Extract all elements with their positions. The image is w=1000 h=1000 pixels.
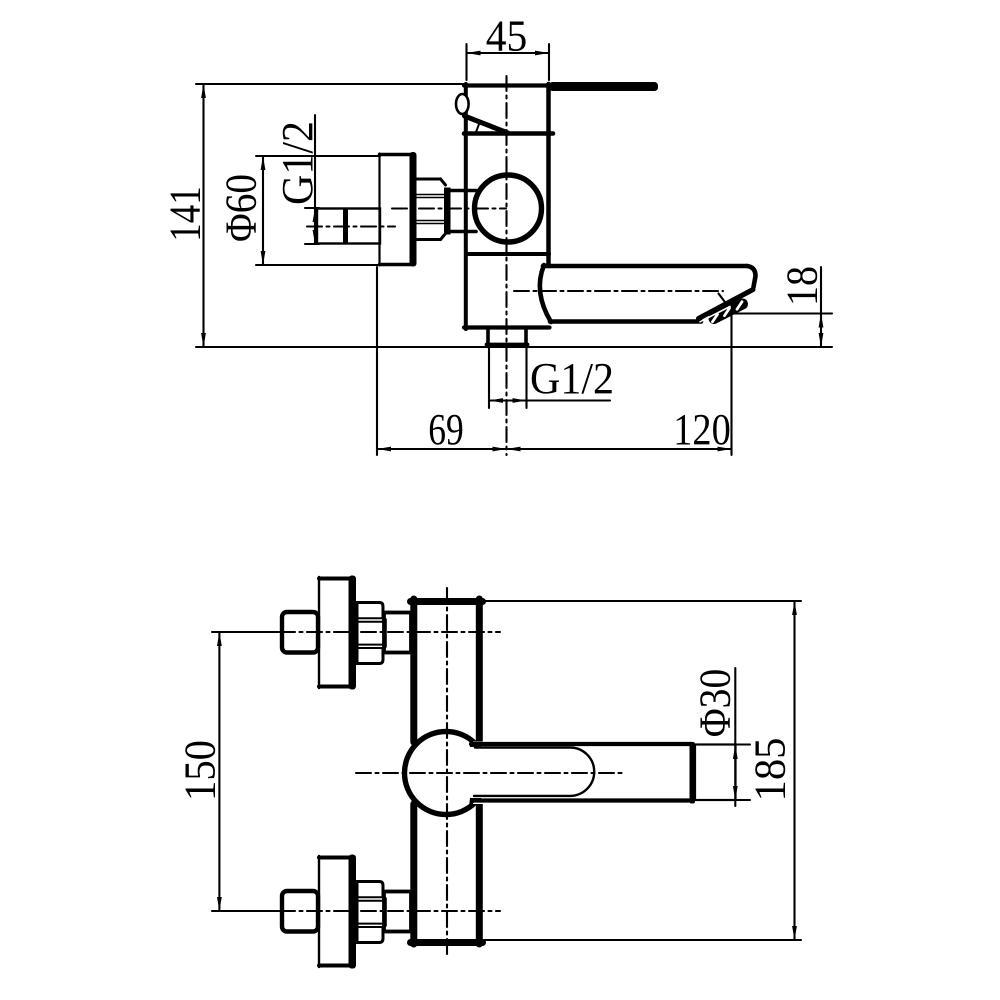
body (front view) bbox=[411, 599, 483, 944]
svg-text:Φ60: Φ60 bbox=[217, 174, 266, 242]
top connector: ribbed nut bbox=[357, 603, 385, 664]
svg-text:45: 45 bbox=[486, 12, 528, 61]
spout cut edge bbox=[699, 290, 754, 319]
aerator centerline tick bbox=[719, 294, 727, 304]
dimension 141 bbox=[161, 84, 210, 347]
ball-rod fillets bbox=[469, 738, 481, 747]
svg-text:G1/2: G1/2 bbox=[530, 354, 614, 403]
neck between nut and valve bbox=[444, 188, 476, 235]
dimension PHI30 bbox=[691, 668, 751, 806]
valve knob circle (side view) bbox=[475, 175, 542, 242]
extension for 120 right bbox=[730, 316, 732, 455]
dimension 120 bbox=[507, 405, 732, 454]
handle lever bar bbox=[549, 82, 658, 91]
wall inlet stub (side view) bbox=[317, 209, 380, 244]
centerlines (side view) bbox=[307, 76, 723, 455]
bottom outlet stub (side view) bbox=[487, 329, 528, 345]
G1/2 bottom dimension bbox=[489, 347, 614, 408]
svg-text:141: 141 bbox=[161, 186, 210, 242]
dimension 150 bbox=[176, 632, 225, 911]
bottom connector: square nut bbox=[282, 891, 318, 932]
dimension G1/2 top bbox=[273, 115, 322, 244]
handle stadium (lever front view) bbox=[474, 748, 594, 796]
svg-text:18: 18 bbox=[778, 266, 827, 306]
spout bbox=[540, 265, 756, 322]
svg-text:Φ30: Φ30 bbox=[691, 669, 740, 738]
dimension PHI60 bbox=[217, 156, 381, 265]
lever pivot ellipse bbox=[456, 94, 469, 114]
handle rod bbox=[471, 742, 695, 804]
handle grip end bbox=[695, 745, 736, 801]
svg-text:69: 69 bbox=[428, 405, 464, 454]
bottom connector: ribbed nut bbox=[357, 882, 385, 943]
dimension 18 bbox=[731, 266, 832, 347]
bottom connector: cylinder bbox=[384, 892, 411, 932]
rod interior masks ball arc bbox=[473, 742, 690, 805]
ball valve circle (front view) bbox=[405, 732, 488, 815]
dimension 45 bbox=[467, 12, 550, 81]
extension line top of 141 bbox=[196, 83, 464, 85]
top connector: flange bbox=[319, 576, 356, 690]
extension for 69 left bbox=[376, 267, 378, 455]
lever diagonal bbox=[465, 116, 509, 133]
svg-text:185: 185 bbox=[746, 738, 795, 802]
body (side view) bbox=[464, 84, 553, 329]
top connector: cylinder bbox=[384, 613, 411, 653]
top connector: square nut bbox=[282, 612, 318, 653]
shared bottom extension line (141 / 18) bbox=[196, 346, 832, 348]
svg-text:120: 120 bbox=[673, 405, 731, 454]
bottom connector: flange bbox=[319, 855, 356, 969]
ribbed nut (side view) bbox=[417, 179, 446, 240]
wall flange (side view) bbox=[380, 152, 417, 267]
aerator hatch band bbox=[714, 304, 743, 319]
dimension 185 bbox=[484, 601, 801, 940]
svg-text:G1/2: G1/2 bbox=[273, 121, 322, 205]
svg-text:150: 150 bbox=[176, 740, 225, 801]
centerlines (front view) bbox=[280, 588, 622, 956]
dimension 69 bbox=[377, 405, 507, 454]
